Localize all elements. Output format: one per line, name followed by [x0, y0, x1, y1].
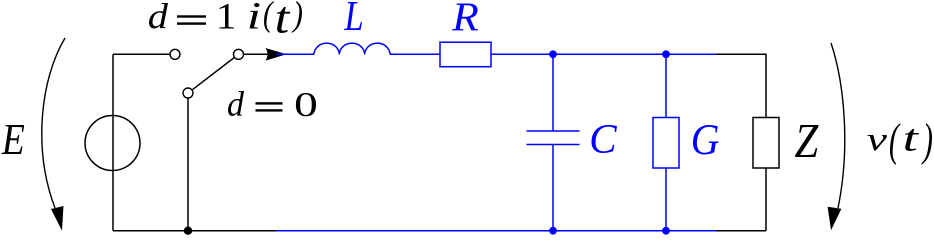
conductance G box — [653, 118, 679, 169]
capacitor C — [527, 131, 580, 145]
node C top junction — [549, 50, 557, 58]
resistor R — [440, 42, 491, 66]
impedance Z box — [753, 118, 779, 169]
wire top-right black to Z — [716, 54, 766, 117]
label E — [1, 125, 24, 154]
wire G bottom branch — [665, 168, 667, 231]
label i(t) — [250, 1, 302, 33]
label d = 0 — [228, 91, 316, 116]
junction dot bottom of switch branch — [184, 227, 192, 235]
label Z — [795, 125, 819, 157]
label L — [344, 2, 362, 30]
wire from pivot down — [187, 98, 189, 230]
wire capacitor top branch — [552, 54, 554, 131]
wire left vertical — [112, 54, 114, 230]
label v(t) — [867, 123, 932, 165]
arrow for v(t) (curved, pointing down) — [831, 43, 845, 208]
wire top blue from R to end of blue net — [491, 53, 717, 55]
wire bottom blue — [276, 230, 717, 232]
inductor L — [314, 43, 390, 54]
node G top junction — [662, 50, 670, 58]
wire blue top before inductor — [276, 53, 314, 55]
source E circle — [85, 116, 140, 171]
arrowhead of E arrow — [51, 206, 64, 231]
wire bottom-left horizontal — [113, 230, 278, 232]
arrow for E (curved, pointing down) — [42, 38, 65, 208]
node G bottom junction — [662, 227, 670, 235]
wire G top branch — [665, 54, 667, 117]
switch terminal left (open) — [170, 49, 180, 59]
switch blade — [192, 58, 234, 90]
switch terminal right (closed, d=1) — [234, 49, 244, 59]
switch pivot terminal — [183, 88, 193, 98]
wire bottom-right black — [716, 230, 766, 232]
wire capacitor bottom branch — [552, 145, 554, 231]
wire between L and R — [390, 53, 440, 55]
wire top-left horizontal — [113, 53, 170, 55]
label R — [452, 3, 478, 30]
label C — [591, 125, 616, 153]
wire Z bottom branch — [765, 168, 767, 231]
arrowhead of v(t) arrow — [828, 207, 842, 231]
current arrowhead i(t) — [266, 48, 287, 61]
node C bottom junction — [549, 227, 557, 235]
wire from closed contact to current arrow — [244, 53, 269, 55]
label G — [693, 125, 719, 154]
label d = 1 — [149, 3, 234, 28]
